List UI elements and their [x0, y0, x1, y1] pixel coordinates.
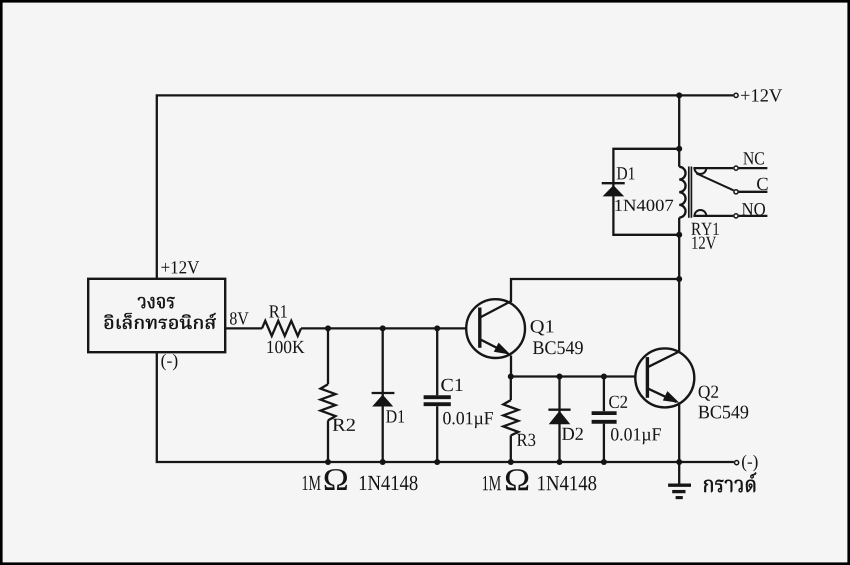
wire box bottom to bottom rail: [157, 352, 734, 462]
label Q1: [531, 320, 554, 335]
label BC549 Q1: [533, 341, 583, 354]
relay RY1 coil: [679, 167, 685, 218]
label Thai ground: [704, 472, 756, 492]
label omega R3: [506, 469, 528, 490]
label +12V terminal: [741, 89, 782, 102]
label 1N4148 D2: [538, 476, 596, 491]
wire R3 to bottom rail: [510, 435, 512, 462]
wire R3 top lead: [510, 377, 512, 401]
control box: [88, 279, 225, 352]
wire diode D1 branch: [382, 328, 384, 462]
label Thai electronics line2: [105, 313, 216, 329]
resistor R3 1M zigzag: [503, 400, 518, 435]
diode D1 1N4007 cathode bar: [602, 182, 625, 184]
transistor Q1 circle: [466, 299, 525, 358]
wire node A to R2: [327, 328, 329, 384]
node dot relay branch bottom: [676, 232, 682, 238]
ground bar 1: [668, 484, 691, 487]
node dot C1 top: [434, 325, 440, 331]
label C1: [441, 379, 462, 391]
label (-) box: [161, 354, 177, 371]
label 100K: [267, 341, 304, 354]
node dot C2 top: [601, 374, 607, 380]
transistor Q1 collector and wire to relay line: [480, 279, 679, 318]
label RY1: [691, 223, 719, 235]
label +12V box: [161, 261, 199, 274]
diode D1 cathode bar: [372, 392, 395, 394]
transistor Q2 emitter arrow: [663, 391, 680, 403]
terminal NC: [734, 166, 738, 170]
ground bar 3: [676, 496, 683, 499]
label D1 relay: [617, 167, 635, 179]
terminal C: [734, 190, 738, 194]
wire top rail +12V: [157, 95, 734, 278]
wire diode D2 branch: [558, 377, 560, 463]
label R2: [333, 419, 355, 431]
node dot D2 bottom: [557, 459, 563, 465]
label NO: [742, 203, 765, 215]
diode D1 1N4148 triangle: [372, 395, 393, 407]
node dot D2 top: [557, 374, 563, 380]
capacitor C2 plates: [592, 411, 617, 415]
label (-) terminal: [742, 455, 758, 472]
relay pole arc bottom: [695, 210, 707, 216]
ground bar 2: [672, 490, 685, 493]
label D2: [562, 428, 583, 440]
label 12V relay: [692, 237, 716, 250]
transistor Q1 emitter: [480, 339, 508, 353]
transistor Q2 collector: [647, 352, 679, 368]
relay pole arc top: [695, 168, 707, 174]
capacitor C1 plates: [424, 395, 451, 399]
node dot D1 top: [380, 325, 386, 331]
wire relay protection branch: [613, 149, 679, 235]
label 8V: [230, 312, 249, 325]
transistor Q1 base bar: [478, 308, 481, 348]
node dot R2 top: [325, 325, 331, 331]
transistor Q2 emitter: [647, 388, 676, 402]
relay armature: [696, 173, 733, 190]
relay stub C: [739, 191, 768, 193]
relay core lines: [688, 167, 690, 218]
transistor Q2 base bar: [646, 357, 649, 398]
node dot R3 bottom: [508, 459, 514, 465]
terminal NO: [734, 214, 738, 218]
diode D1 1N4007 triangle: [603, 185, 625, 196]
relay stub NC: [739, 167, 768, 169]
wire C1 bottom lead: [436, 406, 438, 462]
label C2: [609, 396, 627, 408]
label R1: [269, 305, 287, 317]
label 1M R2: [303, 476, 321, 490]
transistor Q1 emitter arrow: [494, 343, 511, 355]
label BC549 Q2: [698, 406, 748, 419]
relay stub NO: [739, 215, 768, 217]
label NC: [743, 152, 764, 164]
node dot relay branch top: [676, 146, 682, 152]
terminal (-): [735, 461, 739, 465]
wire Q2 emitter to bottom rail: [678, 404, 680, 462]
diode D2 cathode bar: [548, 409, 570, 411]
wire stage2 rail: [511, 375, 635, 377]
resistor R2 1M zigzag: [321, 384, 336, 420]
label C: [757, 178, 768, 190]
label Thai wongchon (circuit) line1: [138, 297, 175, 308]
terminal +12V: [734, 93, 738, 97]
wire Q1 emitter down: [510, 356, 512, 377]
node dot C1 bottom: [434, 459, 440, 465]
node dot Q1 emitter: [508, 374, 514, 380]
wire main vertical +12V to coil: [678, 95, 680, 166]
node dot C2 bottom: [601, 459, 607, 465]
label omega R2: [325, 469, 347, 490]
node dot D1 bottom: [380, 459, 386, 465]
relay contact NC line: [693, 167, 733, 169]
label D1: [386, 410, 404, 422]
relay contact NO line: [693, 215, 733, 217]
wire R2 to bottom rail: [327, 420, 329, 462]
label 0.01uF C2: [611, 428, 661, 444]
label R3: [517, 434, 535, 446]
wire C2 bottom lead: [603, 424, 605, 462]
label 1N4007: [615, 200, 673, 212]
wire C1 top lead: [436, 328, 438, 395]
label 1N4148 D1: [360, 476, 418, 491]
label Q2: [699, 386, 719, 401]
node dot Q2 emitter bottom: [676, 459, 682, 465]
wire C2 top lead: [603, 377, 605, 412]
wire box output to R1: [225, 327, 262, 329]
ground stub: [678, 462, 680, 484]
transistor Q2 circle: [635, 348, 694, 407]
diode D2 1N4148 triangle: [549, 411, 571, 424]
node dot top rail: [676, 92, 682, 98]
wire R1 to Q1 base: [301, 327, 466, 329]
label 1M R3: [483, 476, 501, 490]
resistor R1 100K zigzag: [262, 321, 301, 336]
node dot R2 bottom: [325, 459, 331, 465]
label 0.01uF C1: [443, 412, 493, 428]
wire coil to Q2 collector: [678, 218, 680, 352]
node dot Q1 collector joint: [676, 276, 682, 282]
